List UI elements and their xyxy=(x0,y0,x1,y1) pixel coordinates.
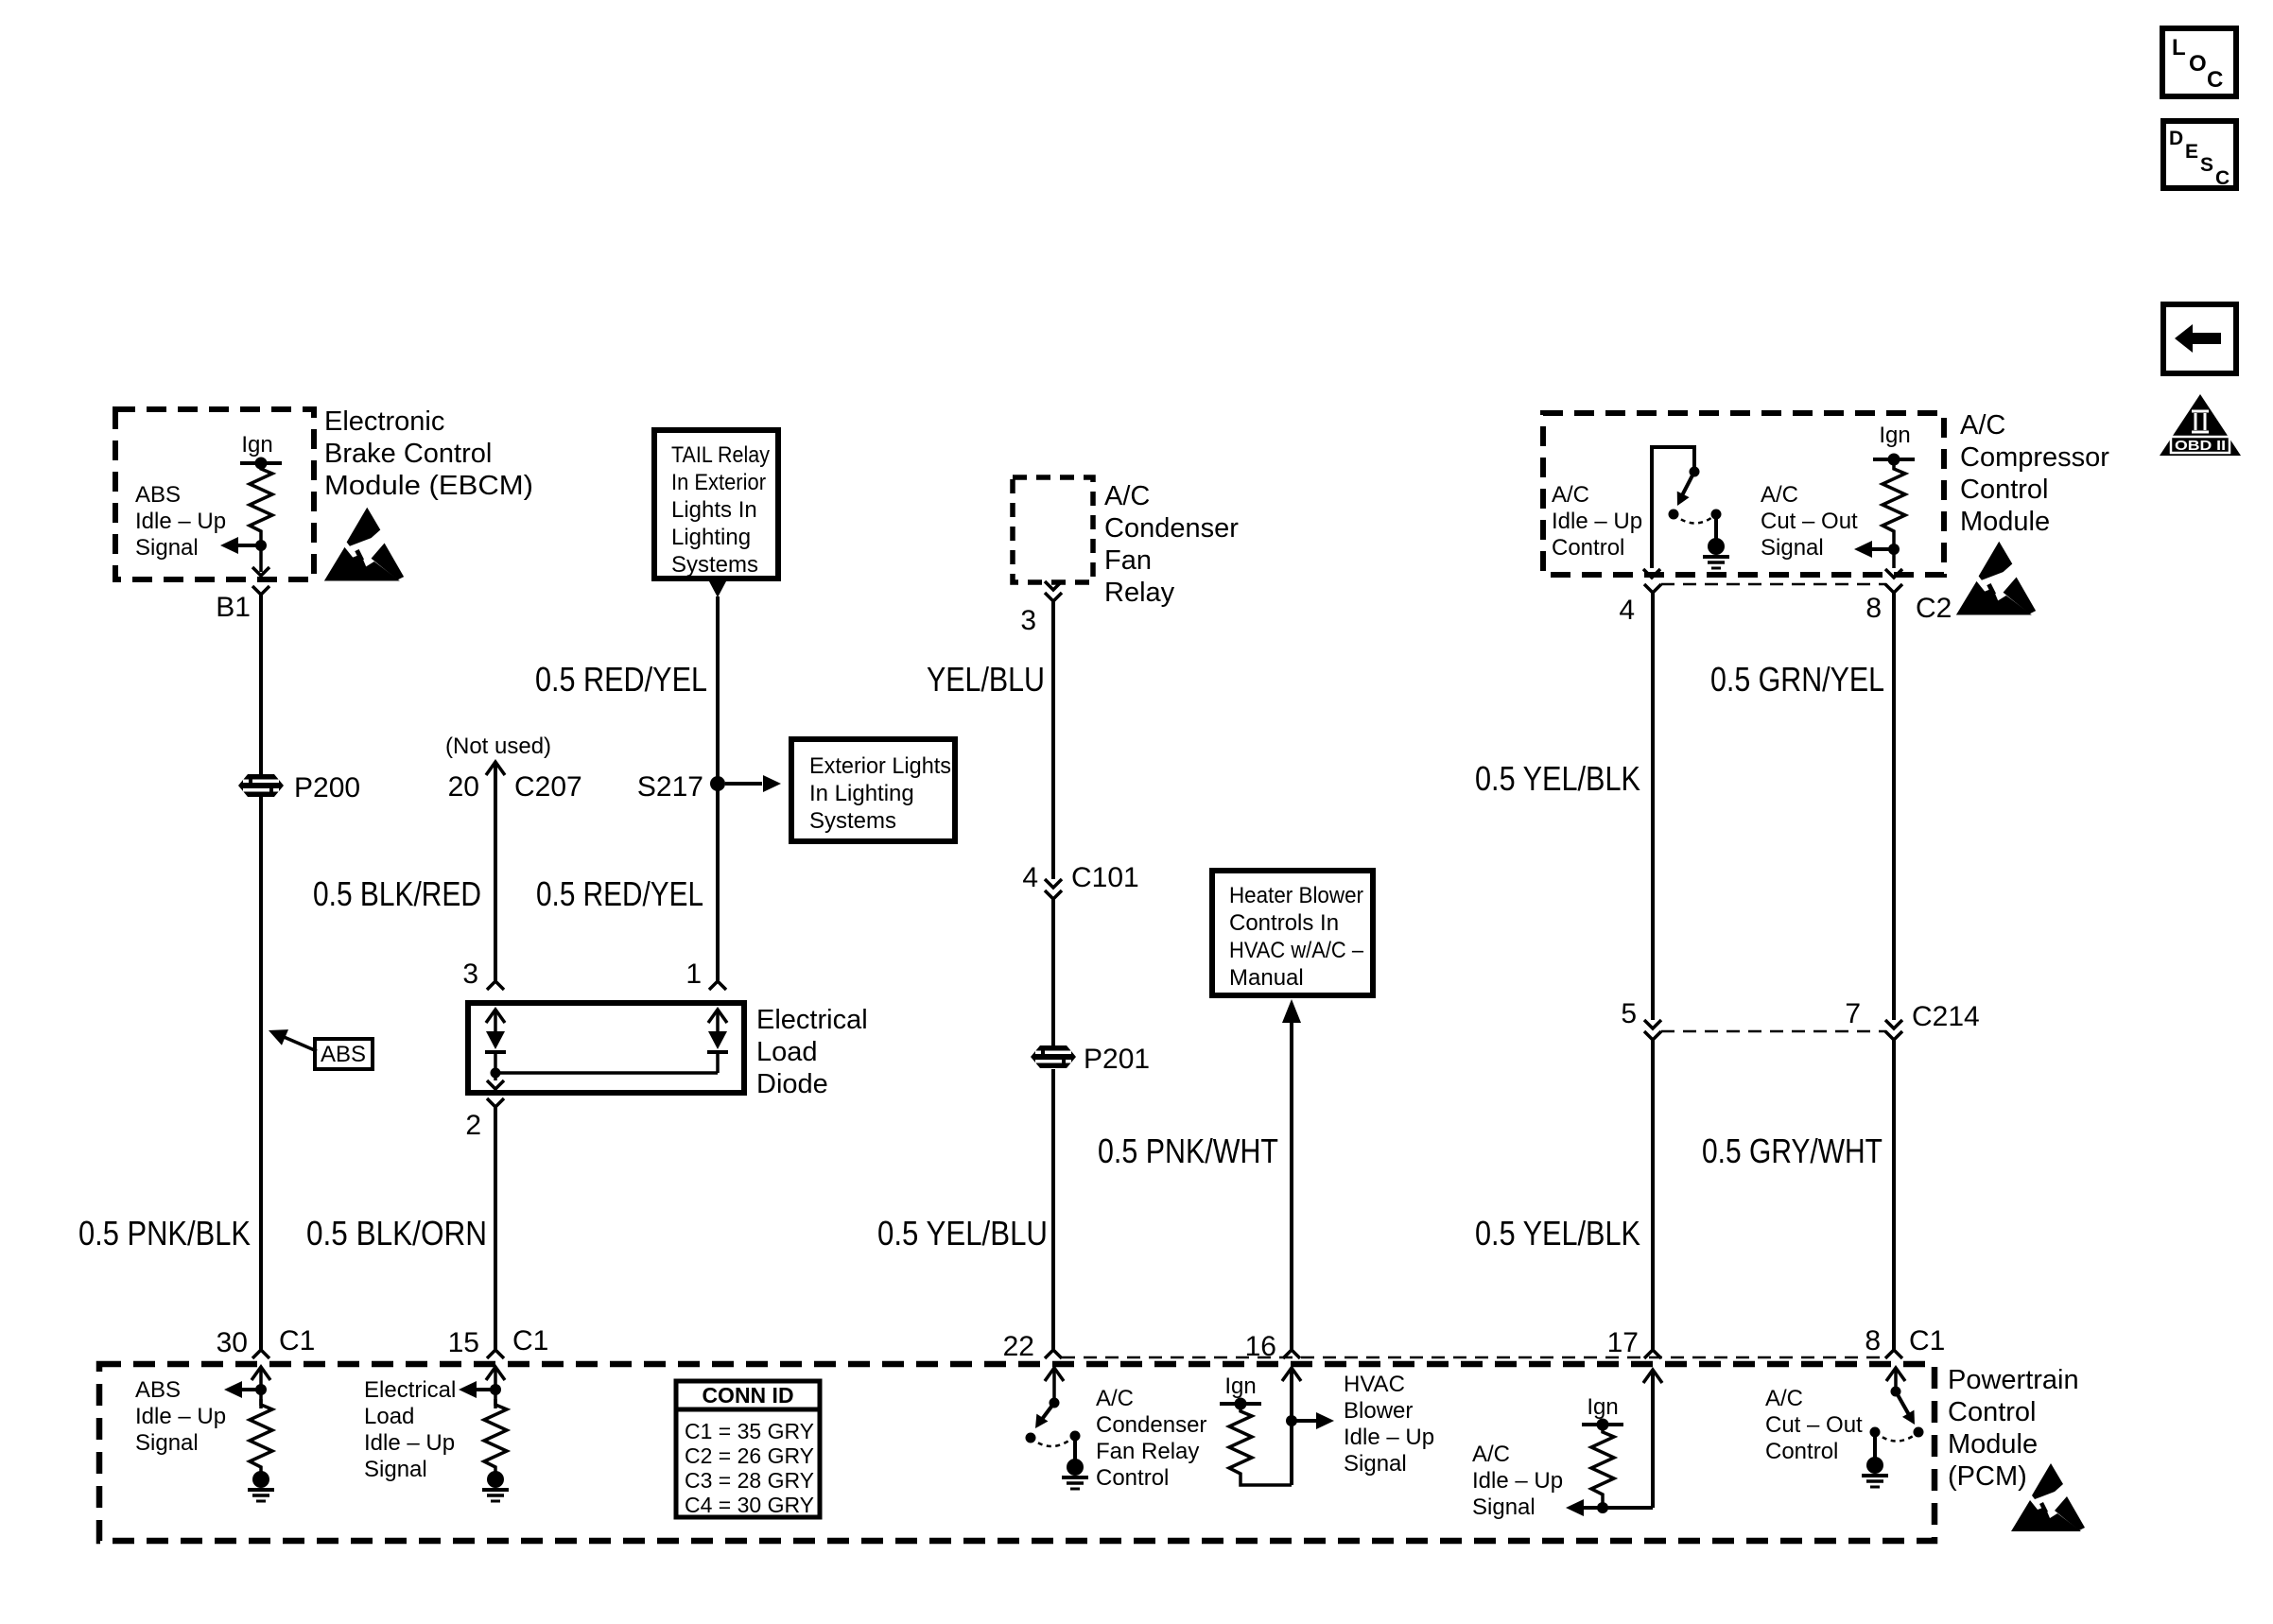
svg-text:O: O xyxy=(2189,51,2207,77)
svg-text:Lights In: Lights In xyxy=(671,497,757,523)
svg-text:C1: C1 xyxy=(512,1325,548,1356)
svg-text:HVAC w/A/C –: HVAC w/A/C – xyxy=(1229,938,1364,963)
svg-text:C207: C207 xyxy=(514,771,582,803)
svg-text:OBD II: OBD II xyxy=(2175,438,2226,454)
svg-text:Electronic: Electronic xyxy=(324,406,444,437)
svg-text:Compressor: Compressor xyxy=(1960,442,2109,473)
svg-text:Module: Module xyxy=(1960,507,2050,537)
svg-text:Control: Control xyxy=(1552,535,1624,561)
svg-text:Controls In: Controls In xyxy=(1229,910,1339,936)
svg-text:Relay: Relay xyxy=(1104,578,1175,608)
svg-text:S: S xyxy=(2200,154,2213,176)
svg-text:Heater Blower: Heater Blower xyxy=(1229,883,1363,908)
svg-text:Fan: Fan xyxy=(1104,545,1152,576)
svg-text:Idle – Up: Idle – Up xyxy=(135,1404,226,1429)
svg-text:0.5 BLK/RED: 0.5 BLK/RED xyxy=(313,874,481,913)
svg-text:17: 17 xyxy=(1607,1327,1639,1358)
svg-text:3: 3 xyxy=(462,959,478,990)
svg-text:Idle – Up: Idle – Up xyxy=(1344,1425,1434,1450)
svg-text:Exterior Lights: Exterior Lights xyxy=(809,753,951,779)
svg-text:Idle – Up: Idle – Up xyxy=(1472,1468,1563,1494)
svg-text:P200: P200 xyxy=(294,772,360,803)
svg-text:30: 30 xyxy=(217,1327,248,1358)
svg-text:Manual: Manual xyxy=(1229,965,1304,991)
svg-text:Signal: Signal xyxy=(1761,535,1824,561)
svg-text:Idle – Up: Idle – Up xyxy=(364,1430,455,1456)
svg-text:0.5 YEL/BLU: 0.5 YEL/BLU xyxy=(877,1214,1048,1253)
svg-text:HVAC: HVAC xyxy=(1344,1372,1405,1397)
svg-text:Ign: Ign xyxy=(1587,1394,1618,1420)
svg-text:Module: Module xyxy=(1948,1429,2038,1460)
svg-text:Ign: Ign xyxy=(1224,1373,1256,1399)
svg-text:Idle – Up: Idle – Up xyxy=(135,509,226,534)
svg-text:A/C: A/C xyxy=(1552,482,1589,508)
svg-text:0.5 RED/YEL: 0.5 RED/YEL xyxy=(536,874,703,913)
svg-text:Signal: Signal xyxy=(135,1430,199,1456)
svg-text:15: 15 xyxy=(448,1327,479,1358)
svg-text:4: 4 xyxy=(1619,595,1635,626)
svg-text:Lighting: Lighting xyxy=(671,525,751,550)
svg-text:Blower: Blower xyxy=(1344,1398,1413,1424)
svg-text:S217: S217 xyxy=(637,771,703,803)
svg-text:YEL/BLU: YEL/BLU xyxy=(927,660,1045,699)
svg-text:C1: C1 xyxy=(279,1325,315,1356)
svg-text:5: 5 xyxy=(1621,998,1637,1029)
svg-text:Diode: Diode xyxy=(756,1069,828,1099)
svg-text:C101: C101 xyxy=(1071,862,1139,893)
svg-text:Signal: Signal xyxy=(135,535,199,561)
svg-text:Electrical: Electrical xyxy=(364,1377,456,1403)
svg-text:Control: Control xyxy=(1948,1397,2037,1427)
svg-text:C2 = 26 GRY: C2 = 26 GRY xyxy=(685,1443,814,1468)
svg-text:3: 3 xyxy=(1020,605,1036,636)
svg-text:0.5 RED/YEL: 0.5 RED/YEL xyxy=(535,660,707,699)
svg-text:0.5 PNK/WHT: 0.5 PNK/WHT xyxy=(1098,1132,1278,1170)
svg-text:A/C: A/C xyxy=(1104,481,1150,511)
svg-text:Fan Relay: Fan Relay xyxy=(1096,1439,1199,1464)
svg-text:0.5 GRY/WHT: 0.5 GRY/WHT xyxy=(1702,1132,1883,1170)
svg-text:A/C: A/C xyxy=(1761,482,1798,508)
svg-text:P201: P201 xyxy=(1084,1044,1150,1075)
svg-text:Signal: Signal xyxy=(364,1457,427,1482)
svg-text:ABS: ABS xyxy=(135,482,181,508)
svg-text:C1 = 35 GRY: C1 = 35 GRY xyxy=(685,1419,814,1443)
svg-text:(Not used): (Not used) xyxy=(445,734,551,759)
svg-text:Condenser: Condenser xyxy=(1096,1412,1206,1438)
svg-text:ABS: ABS xyxy=(135,1377,181,1403)
svg-text:B1: B1 xyxy=(216,592,251,623)
svg-text:Ign: Ign xyxy=(1879,423,1910,448)
svg-text:Control: Control xyxy=(1096,1465,1169,1491)
svg-text:C3 = 28 GRY: C3 = 28 GRY xyxy=(685,1468,814,1493)
svg-text:Cut – Out: Cut – Out xyxy=(1765,1412,1863,1438)
svg-text:Control: Control xyxy=(1765,1439,1838,1464)
svg-text:CONN ID: CONN ID xyxy=(702,1383,793,1408)
svg-text:A/C: A/C xyxy=(1472,1442,1510,1467)
svg-text:Module (EBCM): Module (EBCM) xyxy=(324,471,533,501)
svg-text:Systems: Systems xyxy=(671,552,758,578)
svg-text:D: D xyxy=(2169,128,2183,149)
svg-text:20: 20 xyxy=(448,771,479,803)
svg-text:1: 1 xyxy=(685,959,702,990)
svg-text:7: 7 xyxy=(1845,998,1861,1029)
svg-text:Signal: Signal xyxy=(1344,1451,1407,1477)
svg-text:0.5 GRN/YEL: 0.5 GRN/YEL xyxy=(1710,660,1884,699)
svg-text:Powertrain: Powertrain xyxy=(1948,1365,2079,1395)
svg-text:22: 22 xyxy=(1003,1331,1034,1362)
svg-text:Systems: Systems xyxy=(809,808,896,834)
svg-text:4: 4 xyxy=(1022,862,1038,893)
svg-text:0.5 YEL/BLK: 0.5 YEL/BLK xyxy=(1475,759,1640,798)
svg-text:8: 8 xyxy=(1865,1325,1881,1356)
svg-text:L: L xyxy=(2172,35,2186,60)
svg-text:(PCM): (PCM) xyxy=(1948,1461,2027,1492)
svg-text:C: C xyxy=(2207,67,2223,93)
svg-text:8: 8 xyxy=(1865,593,1882,624)
svg-text:Control: Control xyxy=(1960,475,2049,505)
svg-text:Condenser: Condenser xyxy=(1104,513,1239,544)
svg-text:TAIL Relay: TAIL Relay xyxy=(671,442,770,468)
svg-text:2: 2 xyxy=(465,1110,481,1141)
svg-text:16: 16 xyxy=(1245,1331,1276,1362)
svg-text:E: E xyxy=(2185,141,2198,163)
svg-text:Idle – Up: Idle – Up xyxy=(1552,509,1642,534)
svg-text:In Exterior: In Exterior xyxy=(671,470,766,495)
svg-text:In Lighting: In Lighting xyxy=(809,781,914,806)
svg-text:A/C: A/C xyxy=(1960,410,2005,441)
svg-text:Signal: Signal xyxy=(1472,1494,1536,1520)
svg-text:C4 = 30 GRY: C4 = 30 GRY xyxy=(685,1493,814,1517)
svg-text:Electrical: Electrical xyxy=(756,1005,868,1035)
svg-text:Load: Load xyxy=(364,1404,414,1429)
svg-text:0.5 BLK/ORN: 0.5 BLK/ORN xyxy=(306,1214,487,1253)
svg-text:A/C: A/C xyxy=(1765,1386,1803,1411)
svg-text:C1: C1 xyxy=(1909,1325,1945,1356)
svg-text:Cut – Out: Cut – Out xyxy=(1761,509,1858,534)
svg-text:C: C xyxy=(2215,167,2230,189)
svg-text:A/C: A/C xyxy=(1096,1386,1134,1411)
svg-text:0.5 PNK/BLK: 0.5 PNK/BLK xyxy=(78,1214,251,1253)
svg-text:C214: C214 xyxy=(1912,1001,1980,1032)
svg-text:Ign: Ign xyxy=(241,432,272,458)
svg-text:C2: C2 xyxy=(1916,593,1952,624)
svg-text:Load: Load xyxy=(756,1037,818,1067)
svg-text:0.5 YEL/BLK: 0.5 YEL/BLK xyxy=(1475,1214,1640,1253)
svg-text:ABS: ABS xyxy=(321,1042,366,1067)
svg-text:Brake Control: Brake Control xyxy=(324,439,492,469)
